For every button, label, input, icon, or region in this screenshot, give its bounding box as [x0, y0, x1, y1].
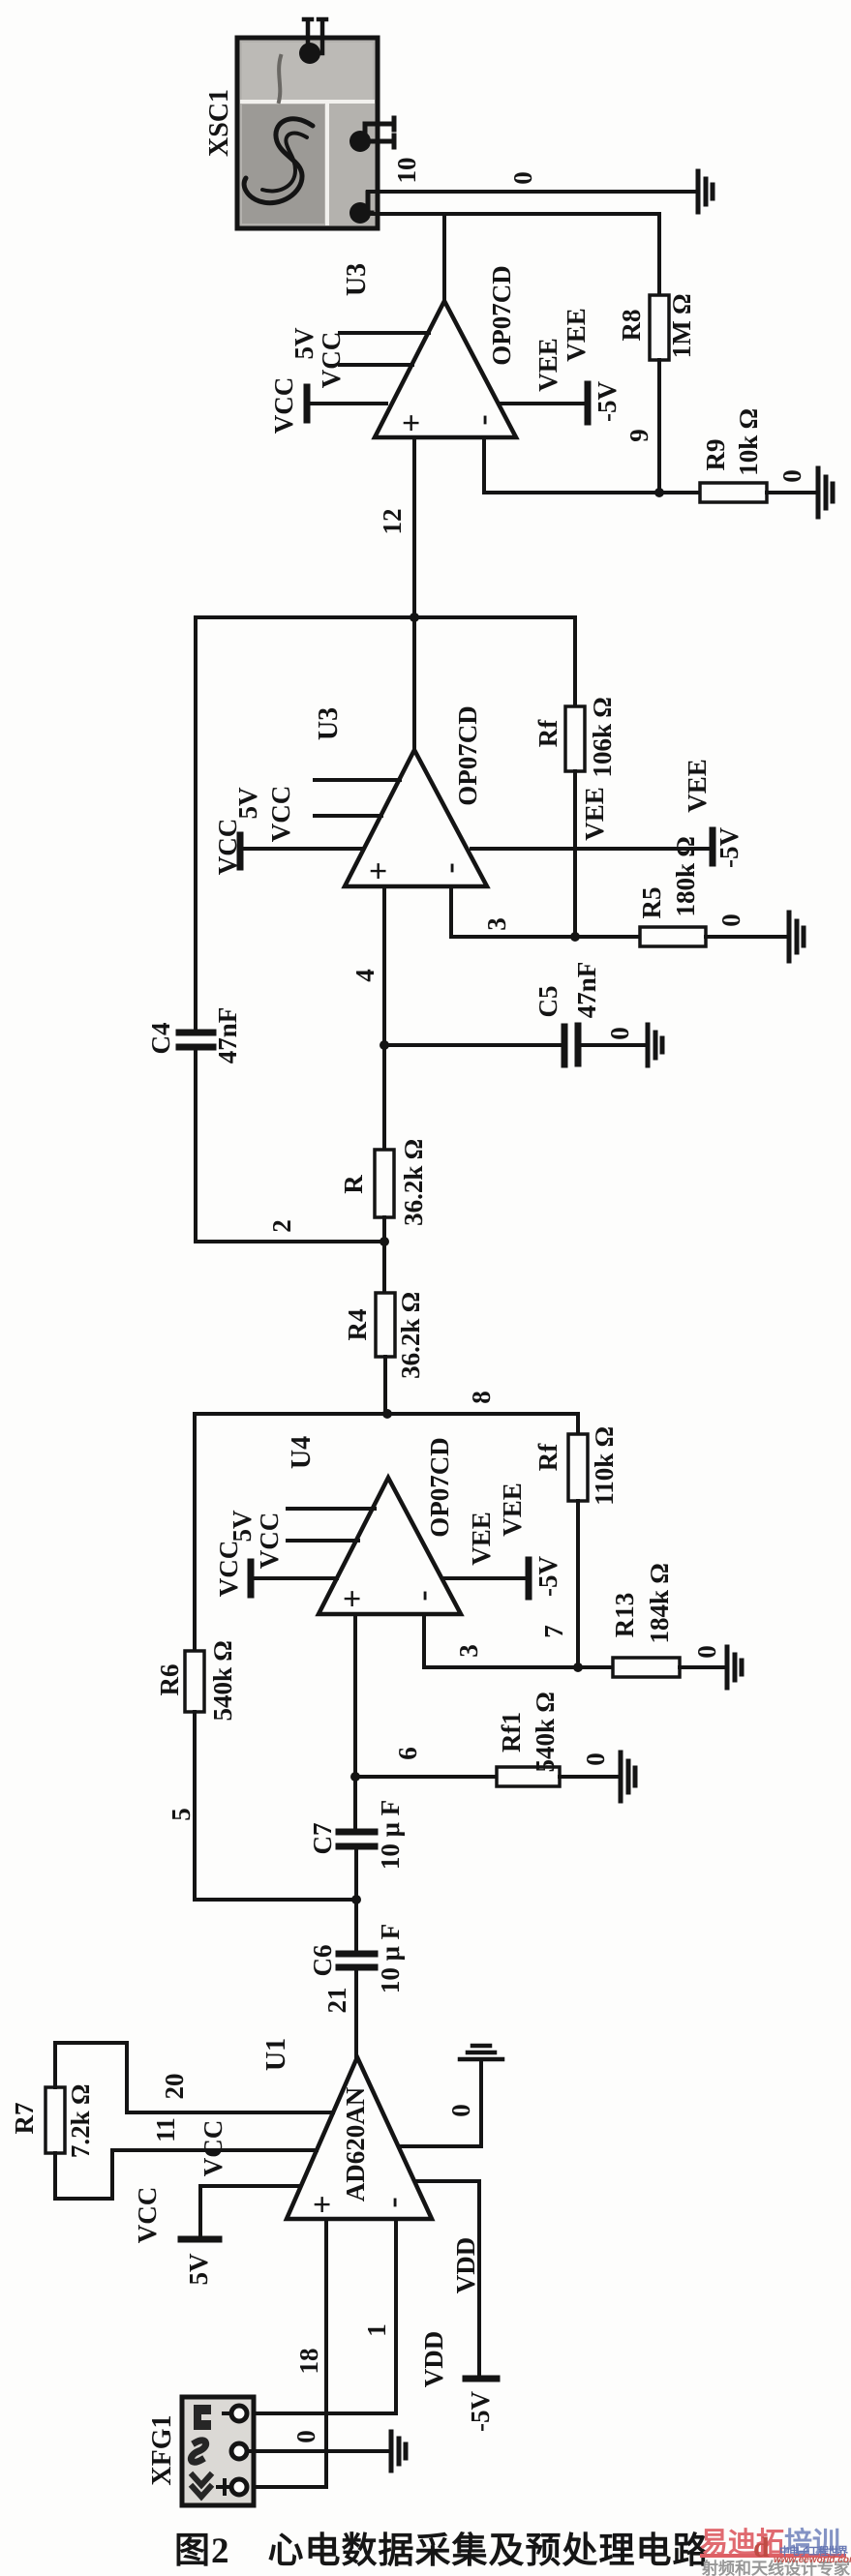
svg-text:VEE: VEE	[683, 759, 712, 813]
ground (R5)	[789, 913, 804, 961]
svg-text:9: 9	[624, 429, 653, 442]
svg-text:110k Ω: 110k Ω	[590, 1426, 619, 1506]
junction node 3	[570, 932, 580, 942]
svg-text:XFG1: XFG1	[147, 2414, 177, 2485]
svg-text:+: +	[394, 413, 430, 432]
wire R to node 2	[382, 1217, 386, 1293]
wire R8 to node 9	[657, 360, 661, 493]
svg-text:VCC: VCC	[255, 1513, 284, 1570]
XSC1 middle terminal (unconnected probe)	[350, 118, 394, 152]
wire U1 - input to XFG1	[254, 2219, 396, 2413]
resistor Rf (110k)	[568, 1434, 588, 1501]
resistor R5	[640, 927, 706, 946]
svg-text:3: 3	[482, 917, 511, 931]
capacitor C5	[564, 1026, 648, 1064]
wire node 6 to Rf1	[355, 1775, 497, 1779]
wire R5 to ground	[706, 935, 789, 939]
svg-text:10 μ F: 10 μ F	[376, 1924, 405, 1993]
svg-text:C5: C5	[533, 986, 562, 1018]
wire feedback loop top (stage 2)	[196, 615, 575, 619]
svg-text:R7: R7	[10, 2103, 39, 2135]
svg-text:VDD: VDD	[419, 2331, 448, 2388]
U3a power pin stub (VCC)	[340, 363, 412, 367]
resistor R4	[376, 1293, 395, 1357]
VEE -5V bar U3a	[585, 384, 592, 422]
resistor R6	[185, 1651, 204, 1712]
op-amp U1 (AD620AN)	[287, 2057, 432, 2219]
svg-text:0: 0	[446, 2104, 475, 2117]
wire U1 + input to XFG1	[254, 2219, 326, 2487]
svg-text:36.2k Ω: 36.2k Ω	[396, 1292, 425, 1379]
capacitor C6	[339, 1954, 375, 2057]
svg-text:0: 0	[692, 1645, 721, 1659]
svg-text:0: 0	[291, 2430, 320, 2443]
wire U4 inverting input to node 7	[424, 1614, 613, 1667]
wire node 4 (U3b + input down)	[382, 886, 386, 1150]
VCC rail bar U3a	[307, 387, 386, 420]
svg-text:OP07CD: OP07CD	[453, 705, 482, 806]
svg-text:47nF: 47nF	[213, 1007, 242, 1064]
svg-text:VCC: VCC	[266, 786, 295, 843]
wire left branch down to R6	[193, 1414, 197, 1651]
svg-text:540k Ω: 540k Ω	[208, 1640, 237, 1721]
svg-text:-5V: -5V	[593, 381, 622, 422]
wire U4 + input down to node 6	[353, 1614, 357, 1832]
op-amp U3 (second stage, OP07CD)	[345, 750, 487, 886]
svg-text:Rf: Rf	[533, 719, 562, 747]
svg-text:VCC: VCC	[213, 819, 242, 876]
ground (XFG1)	[391, 2432, 406, 2471]
svg-text:VDD: VDD	[451, 2237, 480, 2294]
wire R7 bottom loop to pin 11	[55, 2150, 317, 2199]
XSC1 top terminal	[299, 19, 326, 64]
svg-text:10: 10	[392, 158, 421, 184]
capacitor C4	[179, 1033, 384, 1242]
svg-text:U3: U3	[314, 707, 344, 740]
junction node 2	[380, 1237, 389, 1246]
resistor Rf1	[497, 1767, 560, 1786]
wire node 4 to C5	[384, 1043, 564, 1047]
wire Rf1 to ground	[560, 1775, 621, 1779]
svg-text:180k Ω: 180k Ω	[671, 836, 700, 916]
svg-text:Rf1: Rf1	[497, 1712, 526, 1752]
ground (Rf1)	[621, 1752, 635, 1801]
XFG1 terminal common	[231, 2443, 247, 2459]
junction node 12	[410, 613, 419, 622]
resistor R7	[46, 2087, 65, 2153]
svg-text:VEE: VEE	[467, 1512, 496, 1566]
resistor Rf (106k)	[565, 706, 585, 771]
svg-text:+: +	[305, 2195, 341, 2213]
ground (R9)	[818, 468, 833, 517]
VDD -5V bar	[466, 2376, 497, 2382]
resistor R9	[700, 483, 767, 502]
wire R4 to node 8	[383, 1357, 387, 1414]
U3b power stub (VCC)	[315, 814, 381, 818]
svg-text:VEE: VEE	[533, 338, 562, 392]
ground (U1 pin 0)	[460, 2046, 502, 2059]
VEE -5V bar U4	[526, 1560, 532, 1597]
svg-text:C4: C4	[146, 1023, 175, 1055]
junction node 8	[382, 1409, 392, 1419]
svg-text:U4: U4	[287, 1436, 317, 1469]
svg-text:U1: U1	[261, 2038, 291, 2071]
instrument XSC1 (oscilloscope)	[237, 38, 378, 228]
svg-text:47nF: 47nF	[572, 962, 601, 1019]
VCC rail bar U4	[251, 1562, 337, 1595]
svg-text:0: 0	[508, 171, 537, 185]
svg-text:VCC: VCC	[214, 1541, 243, 1598]
svg-text:R6: R6	[155, 1664, 184, 1696]
svg-text:5: 5	[167, 1808, 196, 1821]
VCC 5V bar U1	[181, 2186, 299, 2239]
svg-text:C7: C7	[308, 1823, 337, 1855]
svg-text:20: 20	[160, 2074, 189, 2100]
U4 power stub (5V)	[288, 1507, 375, 1511]
VEE -5V bar U3b	[710, 830, 716, 863]
wire net 0 (scope ground)	[368, 190, 695, 194]
VCC rail bar U3b	[240, 835, 362, 867]
junction node 7	[573, 1662, 583, 1672]
capacitor C7	[339, 1832, 375, 1954]
svg-text:R5: R5	[637, 887, 666, 919]
U4 power stub (VCC)	[288, 1539, 358, 1543]
wire node 12 (U3a + input down to stage 2)	[412, 437, 416, 750]
svg-text:AD620AN: AD620AN	[341, 2086, 370, 2202]
svg-text:Rf: Rf	[533, 1443, 562, 1471]
wire left branch down to C4	[194, 617, 198, 1033]
svg-text:R: R	[339, 1175, 368, 1194]
instrument XFG1 (function generator)	[182, 2397, 254, 2505]
svg-text:5V: 5V	[228, 1510, 257, 1543]
op-amp U3 (top stage, OP07CD)	[375, 301, 516, 437]
wire Rf down to node 3	[573, 771, 577, 937]
svg-text:1: 1	[362, 2323, 391, 2337]
svg-text:VCC: VCC	[198, 2120, 228, 2177]
svg-text:VEE: VEE	[562, 308, 591, 362]
svg-text:184k Ω: 184k Ω	[645, 1563, 674, 1643]
svg-text:5V: 5V	[184, 2253, 213, 2286]
U3a VEE pin wire	[500, 402, 588, 405]
svg-text:VEE: VEE	[498, 1483, 527, 1537]
svg-text:-: -	[405, 1590, 441, 1601]
svg-text:18: 18	[294, 2349, 323, 2375]
U3a power pin stub (5V)	[340, 331, 429, 335]
svg-text:540k Ω: 540k Ω	[531, 1692, 560, 1772]
junction node 4	[380, 1040, 389, 1050]
node 9 junction	[654, 488, 664, 497]
wire R6 down to C7 node	[195, 1712, 356, 1900]
svg-text:5V: 5V	[289, 327, 319, 360]
svg-text:0: 0	[605, 1027, 634, 1040]
svg-text:-: -	[375, 2197, 410, 2207]
svg-text:7: 7	[539, 1625, 568, 1638]
svg-text:0: 0	[777, 469, 806, 483]
svg-text:3: 3	[454, 1644, 483, 1658]
svg-text:106k Ω: 106k Ω	[588, 697, 617, 777]
svg-text:VCC: VCC	[317, 332, 346, 389]
svg-text:8: 8	[467, 1391, 496, 1404]
XSC1 bottom terminal	[350, 193, 372, 224]
svg-text:10k Ω: 10k Ω	[734, 408, 763, 476]
U3b power stub (5V)	[315, 778, 400, 782]
XFG1 terminal +	[218, 2479, 247, 2495]
svg-text:R9: R9	[701, 439, 730, 471]
svg-text:5V: 5V	[233, 787, 262, 820]
wire right branch down to Rf 110k	[576, 1414, 580, 1434]
resistor R8	[650, 295, 669, 360]
ground (R13)	[727, 1647, 742, 1688]
U4 VEE pin wire	[445, 1576, 529, 1580]
wire R7 top loop to pin 20	[55, 2043, 333, 2112]
wire U1 VDD pin to -5V	[416, 2181, 479, 2379]
XFG1 terminal -	[224, 2406, 247, 2421]
wire R13 to ground	[680, 1665, 727, 1669]
svg-text:-5V: -5V	[714, 827, 744, 868]
svg-text:XSC1: XSC1	[204, 89, 234, 157]
svg-text:R13: R13	[610, 1593, 639, 1638]
wire XFG1 common to ground	[247, 2449, 391, 2453]
ground (C5)	[648, 1025, 662, 1065]
svg-text:36.2k Ω: 36.2k Ω	[399, 1139, 428, 1226]
junction node 5	[351, 1895, 361, 1904]
junction node 6	[350, 1772, 360, 1782]
svg-text:+: +	[335, 1589, 371, 1607]
wire Rf110k down to node 7	[576, 1501, 580, 1667]
svg-text:4: 4	[350, 969, 380, 982]
svg-text:7.2k Ω: 7.2k Ω	[66, 2084, 95, 2158]
svg-text:-5V: -5V	[466, 2391, 495, 2432]
svg-text:VCC: VCC	[133, 2187, 162, 2244]
U3b VEE pin wire to -5V	[471, 847, 713, 851]
op-amp U4 (OP07CD)	[319, 1478, 461, 1614]
wire U1 pin 0 to ground	[400, 2059, 481, 2146]
svg-text:-: -	[432, 862, 468, 873]
svg-text:12: 12	[378, 509, 407, 535]
svg-text:VEE: VEE	[580, 787, 609, 841]
wire R9 to ground	[767, 491, 818, 494]
resistor R13	[613, 1658, 680, 1677]
svg-text:VCC: VCC	[269, 377, 298, 434]
svg-text:R4: R4	[343, 1309, 372, 1341]
svg-text:10 μ F: 10 μ F	[376, 1800, 405, 1870]
wire feedback loop top (U4 stage)	[195, 1412, 578, 1416]
resistor R (36.2k)	[375, 1150, 394, 1217]
svg-text:6: 6	[393, 1747, 422, 1760]
svg-text:21: 21	[322, 1988, 351, 2014]
svg-text:OP07CD: OP07CD	[487, 265, 516, 366]
ground (net 0 top)	[698, 171, 713, 212]
wire net 10 (scope input to U3 output / R8)	[368, 214, 659, 301]
svg-text:11: 11	[151, 2117, 180, 2142]
svg-text:-: -	[465, 414, 501, 425]
wire U3b inverting input to node 3	[451, 886, 640, 937]
svg-text:+: +	[361, 861, 397, 880]
wire U3a inverting input to node 9	[484, 437, 700, 493]
svg-text:C6: C6	[308, 1945, 337, 1977]
wire right branch down to Rf	[573, 617, 577, 706]
svg-text:U3: U3	[342, 263, 372, 296]
svg-text:R8: R8	[617, 310, 646, 342]
svg-text:0: 0	[716, 914, 745, 927]
svg-text:2: 2	[267, 1219, 296, 1233]
svg-text:1M Ω: 1M Ω	[667, 294, 696, 358]
svg-text:-5V: -5V	[533, 1556, 562, 1597]
svg-text:0: 0	[581, 1752, 610, 1766]
svg-text:OP07CD: OP07CD	[425, 1437, 454, 1538]
